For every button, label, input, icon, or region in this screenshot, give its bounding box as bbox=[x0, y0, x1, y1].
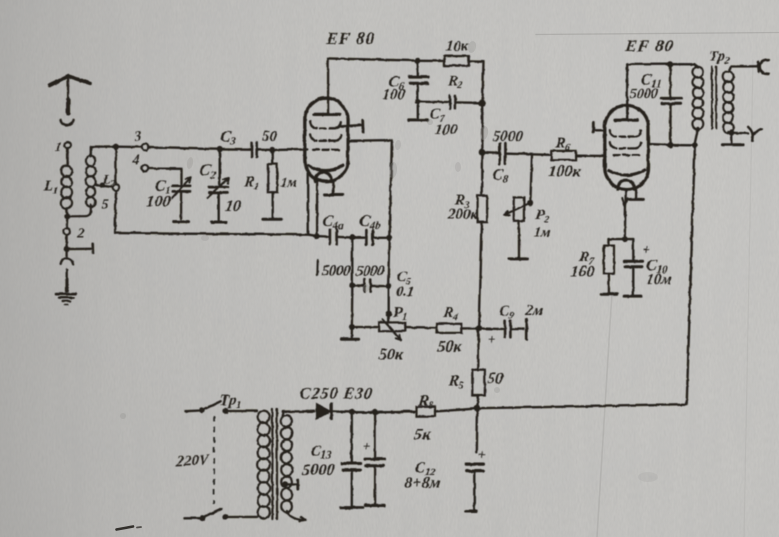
svg-text:5000: 5000 bbox=[321, 263, 352, 279]
svg-text:200к: 200к bbox=[446, 207, 479, 223]
svg-text:+: + bbox=[477, 447, 486, 462]
svg-text:2м: 2м bbox=[523, 303, 543, 319]
svg-text:+: + bbox=[487, 331, 496, 346]
svg-text:50к: 50к bbox=[436, 338, 463, 355]
svg-text:EF 80: EF 80 bbox=[623, 36, 675, 55]
svg-text:50: 50 bbox=[486, 370, 504, 387]
svg-text:10: 10 bbox=[224, 198, 242, 215]
svg-text:50: 50 bbox=[261, 129, 278, 145]
svg-text:5000: 5000 bbox=[492, 129, 524, 145]
svg-text:5000: 5000 bbox=[355, 263, 386, 279]
svg-text:100: 100 bbox=[381, 87, 406, 103]
svg-text:EF 80: EF 80 bbox=[324, 29, 376, 48]
svg-text:100: 100 bbox=[434, 122, 459, 138]
svg-text:10м: 10м bbox=[645, 272, 672, 288]
svg-text:100к: 100к bbox=[547, 163, 582, 180]
svg-text:2: 2 bbox=[75, 226, 85, 242]
svg-text:10к: 10к bbox=[445, 39, 470, 55]
svg-text:160: 160 bbox=[569, 263, 595, 280]
svg-text:100: 100 bbox=[145, 193, 171, 210]
svg-text:+: + bbox=[641, 241, 650, 256]
svg-text:5к: 5к bbox=[413, 426, 432, 443]
svg-text:1м: 1м bbox=[279, 175, 298, 191]
svg-text:5000: 5000 bbox=[301, 462, 335, 479]
svg-text:50к: 50к bbox=[378, 346, 405, 363]
svg-text:220V: 220V bbox=[175, 452, 211, 471]
svg-text:0.1: 0.1 bbox=[395, 284, 414, 300]
svg-text:3: 3 bbox=[133, 128, 141, 145]
svg-text:5000: 5000 bbox=[629, 86, 659, 102]
svg-text:C250 E30: C250 E30 bbox=[299, 385, 374, 402]
svg-text:8+8м: 8+8м bbox=[403, 475, 441, 492]
svg-text:1м: 1м bbox=[533, 224, 552, 240]
svg-text:4: 4 bbox=[131, 152, 139, 169]
svg-text:+: + bbox=[362, 438, 371, 453]
